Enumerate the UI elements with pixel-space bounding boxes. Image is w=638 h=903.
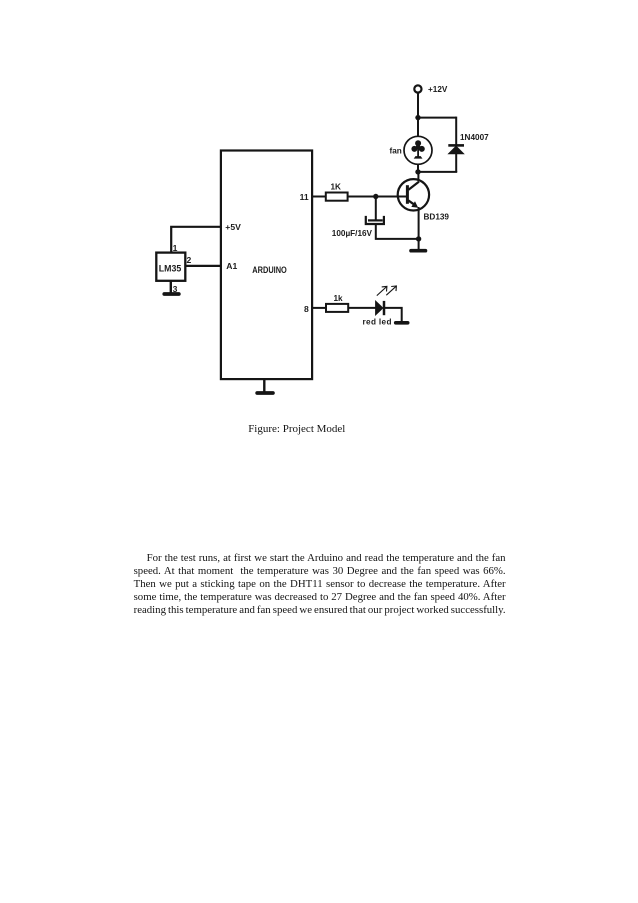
svg-text:1K: 1K — [331, 183, 342, 192]
led D2 red — [376, 301, 384, 315]
ground under transistor — [411, 249, 426, 253]
fan M1 motor circle — [404, 136, 432, 164]
wire arduino ground stem — [263, 379, 265, 392]
transistor Q1 BD139 — [398, 179, 429, 210]
wire diode branch vertical bottom — [455, 154, 457, 172]
label +5V pin — [225, 222, 241, 232]
wire pin11 to resistor — [313, 196, 326, 198]
label fan — [390, 146, 402, 155]
label BD139 — [424, 213, 450, 222]
label 1k — [334, 294, 344, 303]
label pin 11 — [300, 192, 309, 202]
label ARDUINO — [252, 265, 286, 275]
diode 1N4007 — [448, 145, 464, 153]
wire LM35 pin3 to ground — [170, 281, 172, 293]
wire resistor to led — [348, 307, 376, 309]
wire fan bottom to collector junction — [417, 164, 419, 172]
label 1N4007 — [460, 133, 489, 142]
wire junction to diode branch top — [418, 117, 456, 119]
wire diode branch bottom to fan junction — [418, 171, 457, 173]
junction node top — [415, 115, 420, 120]
label 1K — [331, 183, 342, 192]
wire +5V to LM35 pin1 — [171, 227, 221, 253]
svg-text:1k: 1k — [334, 294, 344, 303]
LM35 box — [156, 253, 185, 281]
junction node base-cap — [373, 194, 378, 199]
label 100uF/16V — [332, 229, 373, 238]
wire junction down to capacitor — [375, 197, 377, 221]
wire diode branch vertical top — [455, 117, 457, 146]
caption — [248, 423, 345, 436]
paragraph — [134, 552, 506, 617]
svg-text:100µF/16V: 100µF/16V — [332, 229, 373, 238]
wire resistor to base — [348, 196, 407, 198]
resistor R1 1K body — [326, 193, 348, 201]
svg-text:+5V: +5V — [225, 222, 241, 232]
wire emitter down — [418, 207, 420, 239]
wire junction down to fan top — [417, 118, 419, 137]
svg-text:fan: fan — [390, 146, 402, 155]
ground under led — [396, 321, 408, 325]
wire to ground under transistor — [418, 239, 420, 250]
svg-text:ARDUINO: ARDUINO — [252, 265, 286, 275]
wire capacitor to emitter junction — [376, 224, 419, 239]
svg-text:8: 8 — [304, 304, 309, 314]
resistor R2 1k body — [326, 304, 348, 312]
junction node emitter-ground — [416, 236, 421, 241]
svg-text:1: 1 — [173, 243, 178, 253]
label pin 1 — [173, 243, 178, 253]
wire LM35 pin2 to A1 — [185, 265, 221, 267]
label A1 pin — [226, 261, 237, 271]
svg-text:1N4007: 1N4007 — [460, 133, 489, 142]
ground under LM35 — [164, 292, 179, 296]
wire pin8 to resistor — [313, 307, 326, 309]
label pin 8 — [304, 304, 309, 314]
Arduino U1 box — [221, 151, 312, 380]
label +12V — [428, 85, 448, 94]
ground under arduino — [257, 391, 273, 395]
label pin 3 — [173, 284, 178, 294]
svg-text:A1: A1 — [226, 261, 237, 271]
terminal +12V — [414, 85, 421, 92]
svg-text:red led: red led — [363, 317, 392, 326]
fan icon blades — [411, 140, 424, 158]
label red led — [363, 317, 392, 326]
led arrows — [377, 286, 397, 296]
svg-text:2: 2 — [187, 255, 192, 265]
svg-text:+12V: +12V — [428, 85, 448, 94]
wire led to ground corner — [384, 308, 402, 322]
capacitor C1 100uF/16V — [366, 216, 384, 224]
wire collector — [417, 172, 419, 182]
svg-text:11: 11 — [300, 192, 309, 202]
svg-text:BD139: BD139 — [424, 213, 450, 222]
junction node collector — [415, 169, 420, 174]
label pin 2 — [187, 255, 192, 265]
wire +12V down to junction — [417, 93, 419, 119]
label LM35 — [159, 263, 182, 273]
svg-text:LM35: LM35 — [159, 263, 182, 273]
